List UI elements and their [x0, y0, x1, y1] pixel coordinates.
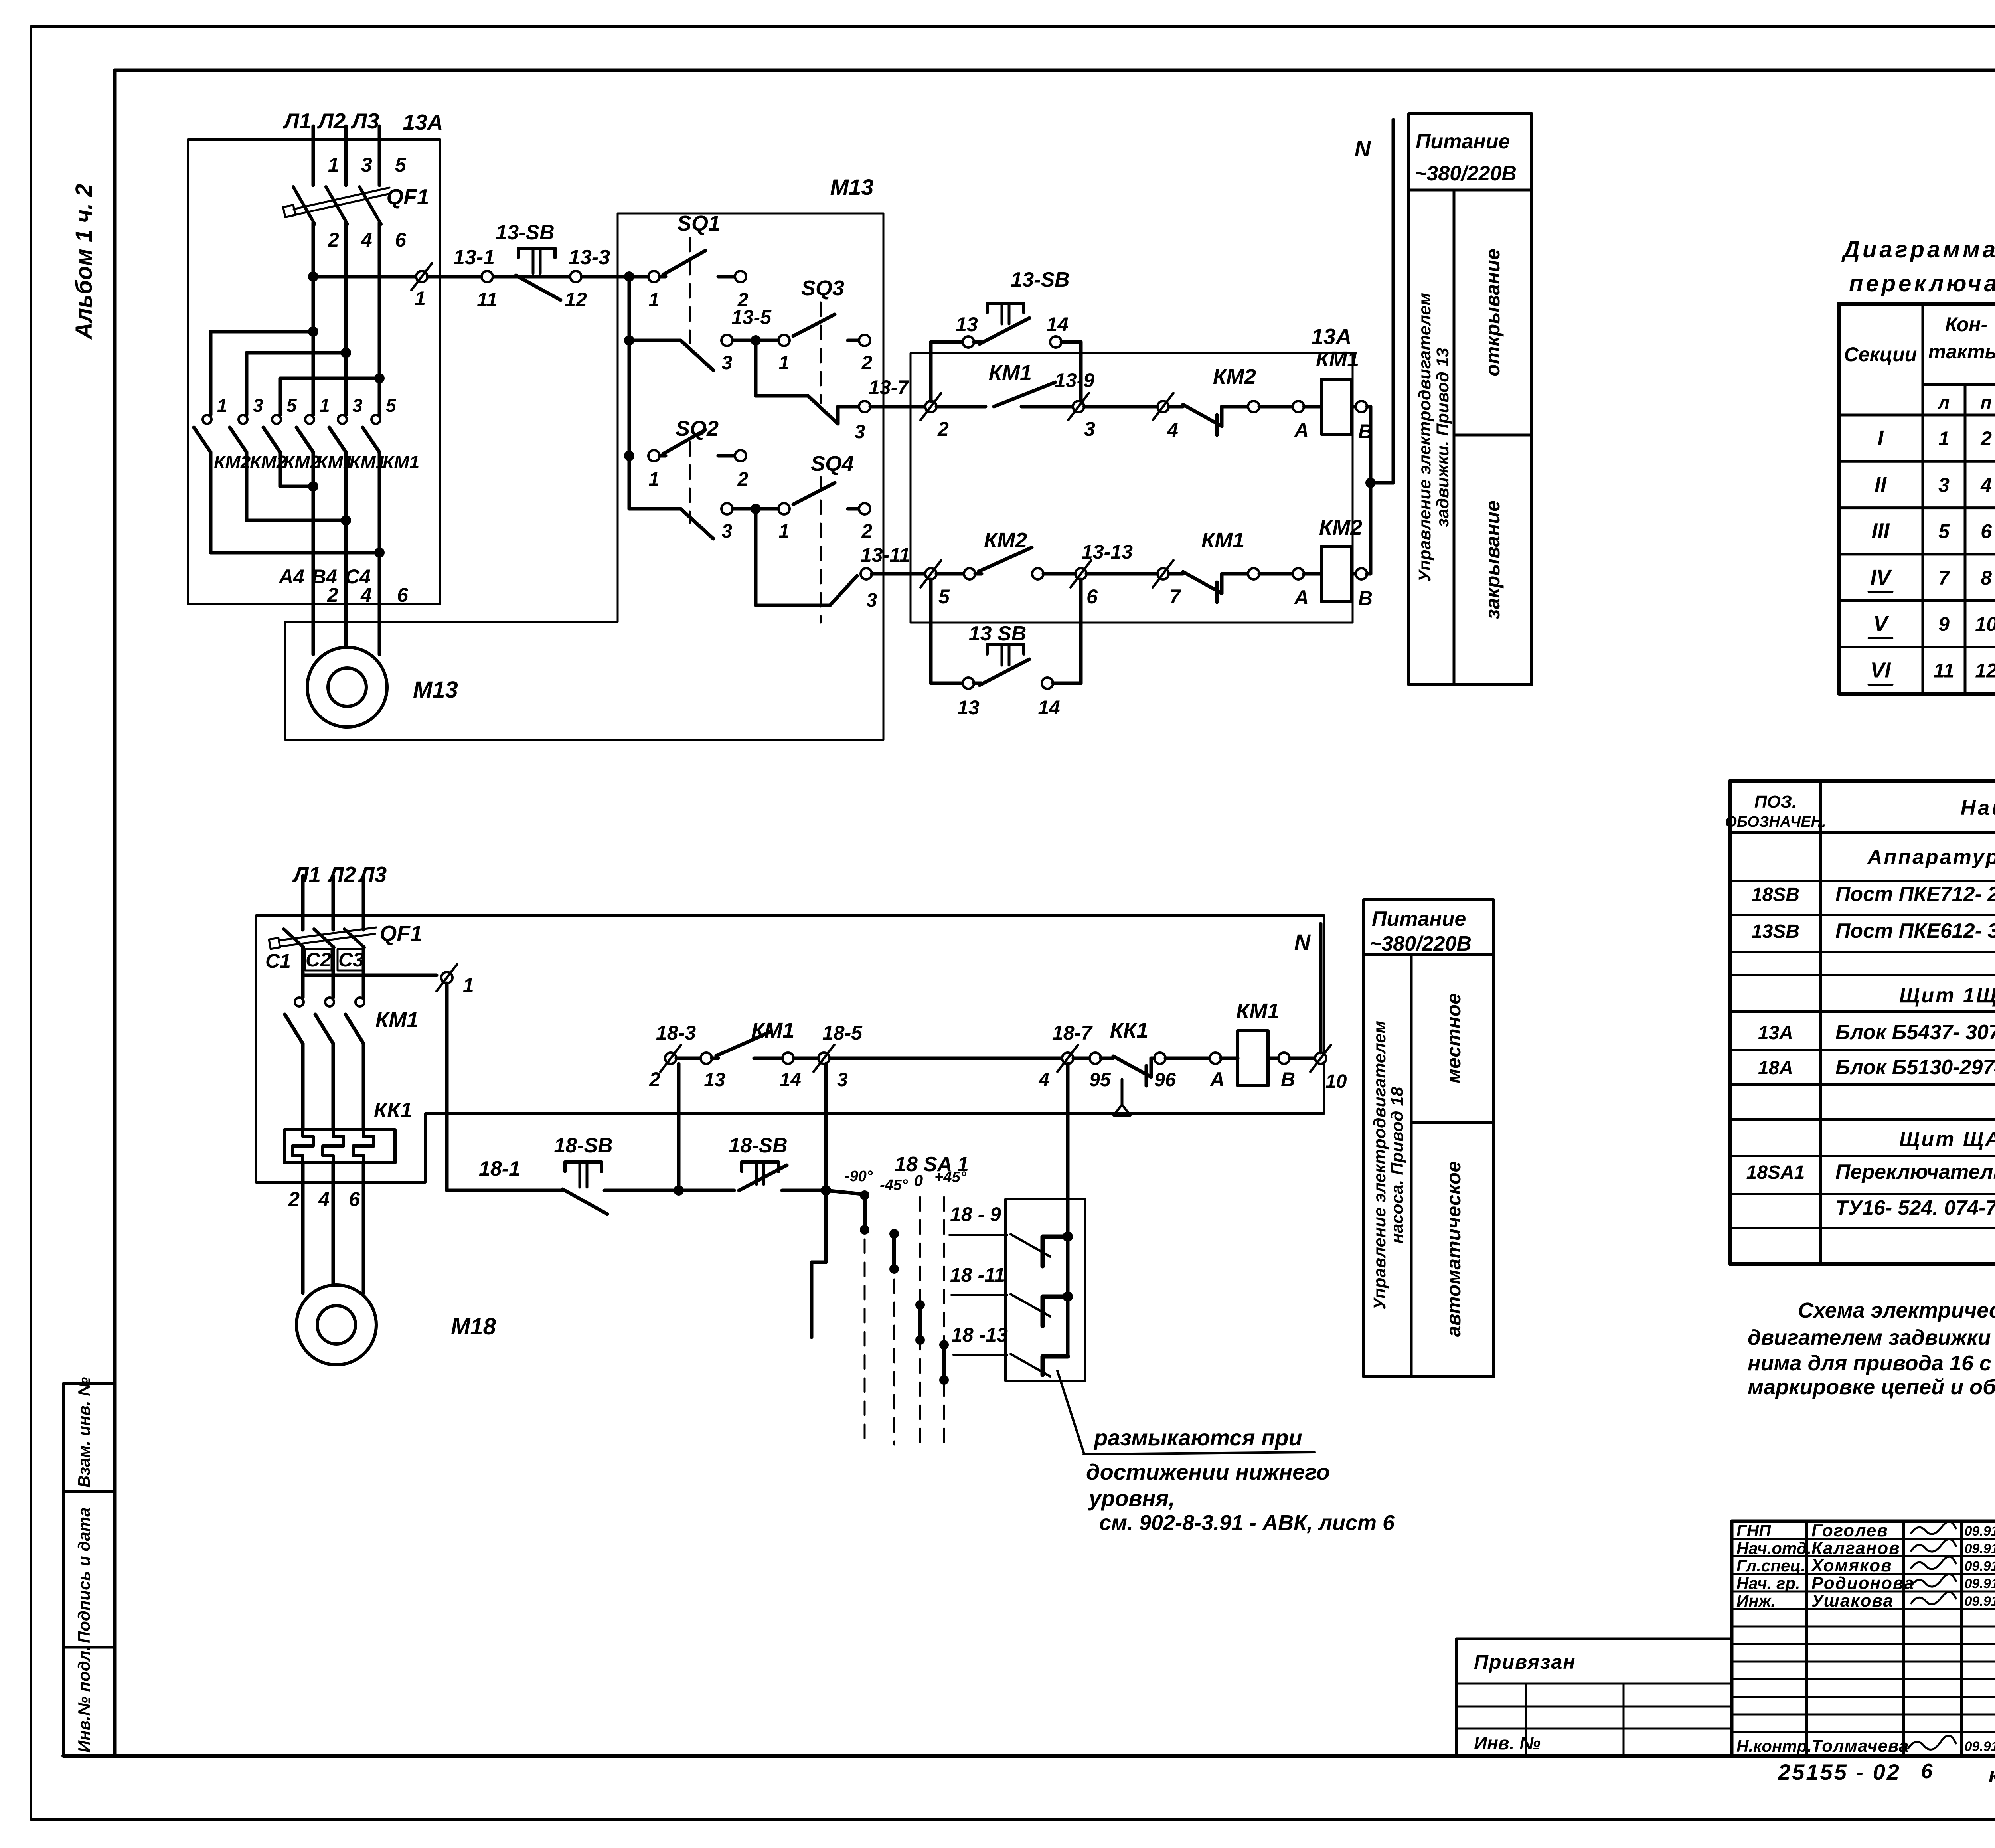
note text размыкаются при достижении нижнего уровня — [1086, 1425, 1395, 1535]
svg-text:М13: М13 — [830, 174, 874, 200]
svg-text:-90°: -90° — [845, 1168, 873, 1185]
svg-text:Пост ПКЕ712- 2У3 ТУ16-642.00: Пост ПКЕ712- 2У3 ТУ16-642.006-83 — [1835, 883, 1995, 906]
row 18 node 2 slash 18-3 — [649, 1022, 701, 1091]
motor feeder labels А4 В4 С4 — [278, 565, 371, 588]
attachment block Привязан — [1456, 1639, 1732, 1756]
svg-text:такты: такты — [1928, 340, 1995, 363]
svg-text:М18: М18 — [451, 1314, 496, 1340]
svg-text:КМ1: КМ1 — [383, 452, 419, 472]
svg-text:14: 14 — [1038, 696, 1060, 719]
thermal relay КК1 heaters — [284, 1098, 412, 1163]
vertical from node 2 to wire 18-1 — [677, 1064, 681, 1190]
terminal numbers 2 4 6 — [328, 229, 407, 251]
svg-text:5: 5 — [286, 395, 297, 416]
svg-text:9: 9 — [1938, 613, 1950, 635]
svg-text:задвижки. Привод 13: задвижки. Привод 13 — [1433, 348, 1452, 527]
main control wire from QF1 to М13 box — [308, 271, 649, 282]
svg-text:09.91: 09.91 — [1964, 1541, 1995, 1556]
svg-text:А: А — [1294, 586, 1309, 609]
title block signature table — [1732, 1521, 1995, 1756]
svg-text:18-SB: 18-SB — [729, 1134, 787, 1157]
svg-text:09.91: 09.91 — [1964, 1594, 1995, 1609]
svg-text:открывание: открывание — [1481, 249, 1504, 376]
svg-text:18-1: 18-1 — [479, 1157, 520, 1180]
svg-text:VI: VI — [1870, 658, 1891, 682]
wire 18-1 with label — [447, 1157, 563, 1190]
phase input wires circuit 18 — [303, 876, 363, 930]
svg-text:18-3: 18-3 — [656, 1022, 696, 1044]
svg-text:КМ2: КМ2 — [1213, 365, 1256, 389]
svg-text:Калганов: Калганов — [1811, 1538, 1900, 1558]
pushbutton 18-SB second — [729, 1134, 826, 1190]
svg-text:SQ2: SQ2 — [676, 417, 719, 441]
svg-text:3: 3 — [361, 154, 372, 176]
svg-text:С3: С3 — [338, 949, 364, 971]
svg-text:Питание: Питание — [1372, 907, 1466, 931]
rotated text открывание — [1481, 249, 1504, 376]
node 4 slash 18-7 — [1038, 1022, 1093, 1091]
svg-text:А: А — [1209, 1068, 1225, 1091]
svg-text:13-SB: 13-SB — [496, 221, 554, 244]
КМ2 NO contact in row 2 — [964, 528, 1075, 579]
label 13А top — [403, 110, 443, 134]
terminal circle 13-1 — [453, 246, 498, 311]
tap wire to 13-7 row — [756, 340, 931, 443]
svg-text:КМ1: КМ1 — [751, 1018, 794, 1042]
svg-text:Щит ЩА2: Щит ЩА2 — [1899, 1128, 1995, 1151]
svg-text:2: 2 — [327, 584, 338, 606]
sensor contact 18-11 — [950, 1264, 1068, 1326]
node 3 slash 13-9 — [1055, 369, 1157, 440]
circuit breaker QF1 — [283, 184, 429, 224]
svg-text:2: 2 — [288, 1188, 300, 1210]
contact diagram title — [1841, 237, 1995, 296]
svg-text:II: II — [1875, 472, 1887, 496]
svg-text:3: 3 — [855, 421, 865, 443]
svg-text:96: 96 — [1154, 1069, 1176, 1091]
svg-text:QF1: QF1 — [387, 184, 429, 209]
terminal circles А row 1 — [1248, 401, 1321, 441]
text Питание 380/220В box 1 — [1414, 130, 1517, 185]
svg-text:Блок Б5437- 3074УХЛ4 ОЛ: Блок Б5437- 3074УХЛ4 ОЛХ. 084. 214-86 — [1835, 1021, 1995, 1044]
switch 18SA1 dashed stems — [865, 1193, 944, 1445]
neutral line N circuit 13 — [1355, 120, 1393, 483]
enclosure box 18А — [256, 915, 1324, 1182]
svg-text:КМ1: КМ1 — [375, 1008, 419, 1032]
svg-text:4: 4 — [361, 229, 372, 251]
svg-text:3: 3 — [352, 395, 363, 416]
svg-text:13: 13 — [957, 696, 980, 719]
svg-text:уровня,: уровня, — [1088, 1486, 1175, 1511]
svg-text:6: 6 — [397, 584, 409, 606]
svg-text:КМ1: КМ1 — [1236, 999, 1279, 1023]
svg-text:5: 5 — [386, 395, 397, 416]
svg-text:размыкаются при: размыкаются при — [1093, 1425, 1302, 1450]
svg-text:13: 13 — [956, 313, 978, 336]
svg-text:I: I — [1877, 426, 1884, 450]
svg-text:Управление электродвигателем: Управление электродвигателем — [1415, 293, 1434, 582]
svg-text:13SВ: 13SВ — [1752, 921, 1799, 942]
text Питание 380/220В box 2 — [1369, 907, 1472, 955]
switch contact bar position -45 — [889, 1229, 899, 1274]
svg-text:3: 3 — [1084, 418, 1095, 440]
svg-text:Нач. гр.: Нач. гр. — [1736, 1574, 1800, 1593]
vertical from node 4 into sensor box — [1063, 1064, 1073, 1356]
coil КМ2 — [1319, 516, 1362, 601]
lower pushbutton loop 13 SB — [931, 579, 1081, 719]
svg-text:В: В — [1358, 587, 1373, 609]
svg-text:18 - 9: 18 - 9 — [950, 1203, 1001, 1225]
svg-text:КМ1: КМ1 — [989, 361, 1032, 385]
svg-text:Наименование: Наименование — [1961, 797, 1995, 820]
svg-text:6: 6 — [1086, 585, 1098, 608]
row открывание: node 2 slash — [920, 393, 986, 440]
КМ1 main contacts circuit 18 — [285, 998, 419, 1130]
svg-text:Родионова: Родионова — [1811, 1573, 1915, 1593]
rotated text Управление электродвигателем насоса. Привод 18 — [1370, 1021, 1407, 1310]
svg-text:ПОЗ.: ПОЗ. — [1754, 792, 1797, 812]
svg-text:N: N — [1355, 136, 1371, 161]
svg-text:С2: С2 — [306, 949, 331, 971]
stamp label Взам. инв. № — [75, 1377, 93, 1488]
rotated text Управление электродвигателем задвижки. Привод 13 — [1415, 293, 1452, 582]
svg-text:~380/220В: ~380/220В — [1414, 162, 1517, 185]
svg-text:копировал: Ильичева: копировал: Ильичева — [1989, 1763, 1995, 1787]
svg-text:КМ1: КМ1 — [1201, 528, 1244, 552]
svg-text:3: 3 — [722, 352, 733, 374]
parts table rows text — [1746, 846, 1995, 1219]
svg-text:КМ2: КМ2 — [1319, 516, 1362, 540]
QF1 output bus and node 1 slash — [303, 964, 474, 996]
junction dot at node 2 vertical — [674, 1185, 734, 1196]
svg-text:+45°: +45° — [934, 1169, 966, 1186]
enclosure box 13А power block — [188, 140, 440, 604]
phase swap interconnections — [211, 481, 385, 558]
svg-text:Н.контр.: Н.контр. — [1736, 1737, 1812, 1755]
svg-text:13-SB: 13-SB — [1011, 268, 1069, 291]
level sensor box — [1005, 1199, 1085, 1381]
svg-text:V: V — [1873, 612, 1889, 636]
svg-text:4: 4 — [1980, 474, 1992, 496]
switch contact bar position -90 — [860, 1190, 869, 1235]
phase input wires — [313, 126, 379, 185]
svg-text:ТУ16- 524. 074-75: ТУ16- 524. 074-75 — [1835, 1196, 1995, 1219]
svg-text:SQ4: SQ4 — [811, 452, 854, 476]
svg-text:Нач.отд.: Нач.отд. — [1736, 1539, 1811, 1557]
svg-text:6: 6 — [349, 1188, 360, 1210]
svg-text:ГНП: ГНП — [1736, 1521, 1771, 1540]
svg-text:2: 2 — [1980, 427, 1992, 450]
svg-text:А: А — [1294, 419, 1309, 441]
svg-text:1: 1 — [217, 395, 227, 416]
svg-text:5: 5 — [1938, 520, 1950, 543]
wire from node 1 down to 18-1 — [445, 983, 449, 1190]
svg-text:1: 1 — [649, 290, 660, 311]
svg-text:13 SB: 13 SB — [969, 622, 1027, 645]
svg-text:13-5: 13-5 — [731, 306, 772, 328]
svg-text:двигателем задвижки выполн: двигателем задвижки выполнена для привод… — [1748, 1326, 1995, 1350]
svg-text:С1: С1 — [265, 950, 291, 972]
info box Питание / Управление приводом 13 — [1409, 114, 1532, 685]
svg-text:достижении нижнего: достижении нижнего — [1086, 1459, 1330, 1484]
limit switch SQ2 contacts 1-2 — [648, 417, 749, 523]
signature rows text — [1736, 1521, 1995, 1756]
labels С1 С2 С3 with release boxes — [265, 949, 364, 972]
svg-text:Хомяков: Хомяков — [1810, 1556, 1892, 1575]
svg-text:8: 8 — [1981, 567, 1992, 589]
svg-text:~380/220В: ~380/220В — [1369, 932, 1472, 955]
terminal circle 13-3 — [565, 246, 610, 311]
svg-text:местное: местное — [1442, 993, 1465, 1083]
svg-text:IV: IV — [1870, 565, 1892, 589]
svg-text:4: 4 — [360, 584, 372, 606]
svg-text:нима для привода 16 с: нима для привода 16 с соответствующими и… — [1748, 1351, 1995, 1375]
svg-text:л: л — [1938, 392, 1950, 413]
svg-text:Аппаратура по месту: Аппаратура по месту — [1867, 846, 1995, 869]
svg-text:2: 2 — [861, 352, 873, 374]
bottom margin texts — [1778, 1759, 1995, 1789]
svg-text:ОБОЗНАЧЕН.: ОБОЗНАЧЕН. — [1725, 814, 1826, 830]
svg-text:2: 2 — [937, 418, 949, 440]
svg-text:Толмачева: Толмачева — [1811, 1736, 1909, 1756]
svg-text:09.91: 09.91 — [1964, 1559, 1995, 1574]
svg-text:КК1: КК1 — [374, 1098, 412, 1122]
svg-text:18-SB: 18-SB — [554, 1134, 612, 1157]
КК1 NC thermal contact — [1089, 1018, 1210, 1115]
contactor contacts КМ2 КМ2 КМ2 КМ1 КМ1 КМ1 — [194, 395, 419, 485]
motor М18 — [296, 1285, 496, 1365]
svg-text:13-9: 13-9 — [1055, 369, 1094, 391]
svg-text:25155 - 02: 25155 - 02 — [1778, 1759, 1901, 1785]
SQ1 transfer row with 13-5 and SQ3 — [629, 276, 873, 403]
svg-text:6: 6 — [1921, 1760, 1933, 1783]
parts table grid — [1730, 781, 1995, 1264]
node 4 slash — [1153, 393, 1183, 441]
node 1 slash on wire — [411, 263, 432, 310]
svg-text:95: 95 — [1089, 1069, 1111, 1091]
svg-text:Инв.№ подл.: Инв.№ подл. — [75, 1646, 93, 1753]
svg-text:3: 3 — [867, 590, 877, 611]
svg-text:Инв. №: Инв. № — [1474, 1733, 1541, 1753]
svg-text:3: 3 — [1938, 474, 1950, 496]
svg-text:закрывание: закрывание — [1481, 500, 1504, 619]
svg-text:Схема электрическая принци: Схема электрическая принципиальная управ… — [1798, 1299, 1995, 1322]
svg-text:11: 11 — [1934, 660, 1954, 682]
svg-text:09.91: 09.91 — [1964, 1739, 1995, 1754]
tap wire to 13-11 row — [756, 509, 931, 611]
svg-text:SQ1: SQ1 — [677, 211, 720, 235]
svg-text:маркировке цепей и обозна: маркировке цепей и обозначений аппаратов… — [1748, 1375, 1995, 1399]
svg-text:3: 3 — [253, 395, 263, 416]
terminal А and coil КМ1 row 18 — [1209, 999, 1279, 1091]
terminal numbers 1 3 5 — [328, 154, 407, 176]
svg-text:III: III — [1871, 519, 1890, 543]
info box Питание / Управление насосом привод 18 — [1364, 900, 1493, 1377]
svg-text:Питание: Питание — [1416, 130, 1510, 153]
relay block box 13А coils — [911, 324, 1353, 623]
stamp label Инв. № подл. — [75, 1646, 93, 1753]
svg-text:2: 2 — [737, 469, 749, 490]
parts table headers — [1725, 792, 1995, 830]
svg-text:1: 1 — [463, 974, 474, 996]
svg-text:11: 11 — [477, 289, 498, 311]
switch contact bar position +45 — [939, 1340, 949, 1385]
svg-text:переключателя 18SА1: переключателя 18SА1 — [1849, 271, 1995, 296]
svg-text:КМ2: КМ2 — [984, 528, 1027, 552]
rotated text местное — [1442, 993, 1465, 1083]
svg-text:18SВ: 18SВ — [1752, 884, 1799, 905]
svg-text:1: 1 — [415, 287, 426, 310]
svg-text:18-5: 18-5 — [822, 1022, 863, 1044]
pushbutton 18-SB first — [554, 1134, 673, 1214]
КМ1 NC contact in row 2 — [1183, 528, 1248, 602]
switch contact bar position 0 — [915, 1300, 925, 1345]
node 6 slash 13-13 — [1071, 541, 1157, 608]
terminal circle В row 2 — [1352, 568, 1373, 609]
row закрывание: node 5 slash — [920, 560, 964, 608]
svg-text:14: 14 — [1046, 313, 1069, 336]
svg-text:7: 7 — [1938, 567, 1950, 589]
svg-text:автоматическое: автоматическое — [1442, 1161, 1465, 1337]
svg-text:2: 2 — [649, 1068, 660, 1091]
svg-text:13-7: 13-7 — [869, 376, 909, 399]
limit switch SQ1 contacts 1-2 — [648, 211, 749, 343]
motor leads with 2 4 6 circuit 18 — [288, 1163, 363, 1293]
svg-text:13-3: 13-3 — [569, 246, 610, 269]
terminal В and node 10 — [1268, 1045, 1347, 1092]
svg-text:18-7: 18-7 — [1052, 1022, 1093, 1044]
svg-text:Подпись и дата: Подпись и дата — [75, 1508, 93, 1643]
svg-text:13-13: 13-13 — [1082, 541, 1133, 563]
svg-text:N: N — [1294, 929, 1311, 955]
svg-text:Л1: Л1 — [292, 862, 321, 887]
КМ1 NO contact row 18 — [701, 1018, 818, 1091]
svg-text:12: 12 — [565, 289, 587, 311]
contact table row numerals and numbers — [1869, 426, 1995, 685]
rotated text автоматическое — [1442, 1161, 1465, 1337]
svg-text:2: 2 — [328, 229, 339, 251]
svg-text:В: В — [1281, 1068, 1295, 1091]
svg-text:09.91: 09.91 — [1964, 1576, 1995, 1591]
svg-text:18А: 18А — [1758, 1057, 1793, 1079]
feeder vertical wire inside М13 box — [624, 271, 634, 509]
rotated text закрывание — [1481, 500, 1504, 619]
svg-text:1: 1 — [1938, 427, 1950, 450]
svg-text:12: 12 — [1975, 660, 1995, 682]
svg-text:13А: 13А — [1758, 1022, 1793, 1044]
phase wires below QF1 — [313, 223, 379, 415]
motor feeder wires numbers 2 4 6 — [313, 486, 409, 654]
vertical from node 3 to switch ladder — [812, 1064, 862, 1337]
circuit breaker QF1 circuit 18 — [269, 921, 422, 998]
phase labels Л1 Л2 Л3 — [282, 109, 379, 133]
neutral line N circuit 18 — [1294, 924, 1321, 1053]
svg-text:14: 14 — [780, 1069, 801, 1091]
svg-text:4: 4 — [1038, 1069, 1049, 1091]
description paragraph — [1748, 1299, 1995, 1399]
svg-text:Диаграмма работы контакт: Диаграмма работы контактов — [1841, 237, 1995, 263]
svg-text:3: 3 — [837, 1069, 848, 1091]
svg-text:-45°: -45° — [880, 1177, 908, 1194]
svg-text:3: 3 — [722, 521, 733, 542]
stamp label Подпись и дата — [75, 1508, 93, 1643]
svg-text:Инж.: Инж. — [1736, 1591, 1776, 1610]
svg-text:Л2: Л2 — [317, 109, 346, 133]
svg-text:10: 10 — [1975, 613, 1995, 635]
jumper wires to КМ2 contacts — [211, 326, 385, 415]
svg-text:Л1: Л1 — [282, 109, 311, 133]
svg-text:А4: А4 — [278, 565, 304, 588]
svg-text:5: 5 — [395, 154, 407, 176]
svg-text:КМ1: КМ1 — [1316, 347, 1359, 371]
contact table grid — [1839, 304, 1995, 694]
КМ1 NO contact in row 1 — [989, 361, 1073, 407]
svg-text:6: 6 — [1981, 520, 1992, 543]
svg-text:18SА1: 18SА1 — [1746, 1162, 1805, 1183]
svg-text:Переключатель УП5313- Ф227У3: Переключатель УП5313- Ф227У3 — [1835, 1160, 1995, 1184]
svg-text:М13: М13 — [413, 677, 458, 703]
svg-text:Гл.спец.: Гл.спец. — [1736, 1556, 1805, 1575]
svg-text:Альбом 1 ч. 2: Альбом 1 ч. 2 — [71, 184, 97, 340]
svg-text:13А: 13А — [1312, 324, 1352, 349]
svg-text:13А: 13А — [403, 110, 443, 134]
svg-text:SQ3: SQ3 — [801, 276, 844, 300]
phase labels Л1 Л2 Л3 circuit 18 — [292, 862, 387, 887]
svg-text:насоса. Привод 18: насоса. Привод 18 — [1388, 1087, 1407, 1244]
contact table headers — [1844, 305, 1995, 413]
svg-text:Управление электродвигателем: Управление электродвигателем — [1370, 1021, 1389, 1310]
sensor contact 18-9 — [950, 1203, 1068, 1266]
svg-text:1: 1 — [320, 395, 330, 416]
motor М13 — [307, 647, 458, 727]
selector switch 18SA1 label and positions — [845, 1153, 969, 1194]
upper pushbutton loop 13-SB with terminals 13 14 — [931, 268, 1081, 401]
svg-text:7: 7 — [1169, 585, 1181, 608]
coil КМ1 — [1316, 347, 1359, 434]
svg-text:Щит 1Щ: Щит 1Щ — [1899, 984, 1995, 1007]
svg-text:Гоголев: Гоголев — [1811, 1521, 1888, 1540]
album label Альбом 1 ч.2 — [71, 184, 97, 340]
left stamp strip cells — [63, 1384, 115, 1756]
right return wire to N — [1365, 407, 1393, 574]
node 3 slash 18-5 — [814, 1022, 1062, 1091]
pushbutton 13-SB NC — [496, 221, 561, 300]
svg-text:18 -13: 18 -13 — [951, 1324, 1008, 1346]
svg-text:Ушакова: Ушакова — [1811, 1591, 1894, 1611]
svg-text:КК1: КК1 — [1110, 1018, 1148, 1042]
svg-text:QF1: QF1 — [380, 921, 423, 946]
svg-text:09.91: 09.91 — [1964, 1524, 1995, 1539]
svg-text:1: 1 — [779, 352, 790, 374]
svg-text:Привязан: Привязан — [1474, 1651, 1576, 1673]
svg-text:18 -11: 18 -11 — [950, 1264, 1005, 1286]
svg-text:Блок Б5130-2974УХЛ4 ОЛХ: Блок Б5130-2974УХЛ4 ОЛХ. 084. 214-86 — [1835, 1056, 1995, 1079]
svg-text:6: 6 — [395, 229, 407, 251]
leader line to note — [1057, 1371, 1314, 1454]
svg-text:Л3: Л3 — [350, 109, 379, 133]
svg-text:4: 4 — [1167, 419, 1178, 441]
svg-text:Кон-: Кон- — [1945, 313, 1987, 336]
КМ2 NC contact in row 1 — [1183, 365, 1256, 435]
svg-text:1: 1 — [779, 521, 790, 542]
svg-text:13: 13 — [704, 1069, 725, 1091]
svg-text:13-1: 13-1 — [453, 246, 495, 269]
svg-text:см. 902-8-3.91 - АВК, лист 6: см. 902-8-3.91 - АВК, лист 6 — [1099, 1511, 1395, 1535]
svg-text:4: 4 — [318, 1188, 330, 1210]
svg-text:Секции: Секции — [1844, 343, 1917, 366]
SQ2 transfer row with SQ4 — [629, 452, 873, 623]
node 7 slash — [1153, 560, 1183, 608]
